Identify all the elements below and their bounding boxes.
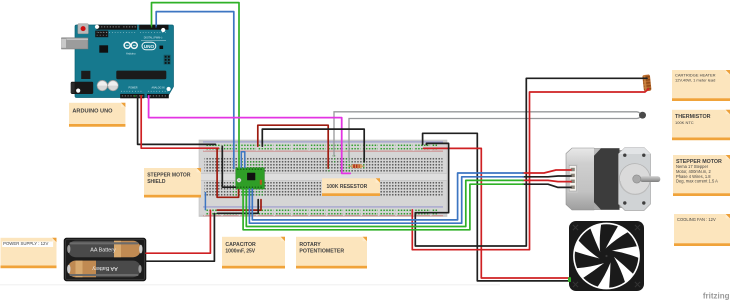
svg-text:ROTARY: ROTARY: [299, 242, 321, 248]
cooling fan FAN1: [569, 221, 644, 291]
wire red jumper top rail to driver VDD: [217, 149, 239, 198]
wire black fan negative from top rail: [423, 133, 570, 281]
battery pack BT1 (2x AA): [64, 238, 146, 281]
svg-text:POWER SUPPLY : 12V: POWER SUPPLY : 12V: [3, 241, 48, 246]
svg-text:CAPACITOR: CAPACITOR: [225, 242, 256, 248]
cartridge heater HTR1: [642, 74, 651, 91]
label note: STEPPER MOTOR SHIELD: [144, 168, 201, 198]
wire black jumper bottom rail to driver GND2: [217, 200, 258, 214]
wire red heater lead from bottom rail: [412, 89, 648, 250]
wire black Arduino GND to breadboard top rail: [138, 96, 216, 144]
svg-text:ANALOG IN: ANALOG IN: [151, 87, 164, 90]
wire red Arduino 5V to breadboard top rail: [141, 96, 218, 148]
wire black stepper motor lead 4: [523, 184, 571, 187]
wire red stepper motor lead 1: [523, 170, 571, 173]
label note: COOLING FAN 12V: [674, 214, 730, 246]
label note: ARDUINO UNO: [69, 103, 125, 127]
wire blue jumper row to bottom rail: [204, 193, 206, 210]
label note: 100K RESESTOR: [322, 178, 380, 196]
svg-text:Arduino: Arduino: [126, 51, 136, 55]
wire red stepper motor lead 3: [523, 180, 571, 181]
svg-text:Deg, max current 1.5 A: Deg, max current 1.5 A: [676, 179, 718, 184]
stepper driver board U2 (on breadboard): [236, 168, 265, 189]
label note: STEPPER MOTOR: [673, 155, 730, 196]
svg-text:100K RESESTOR: 100K RESESTOR: [327, 184, 368, 190]
wire blue stepper phase A1: [252, 173, 523, 220]
wire red jumper bottom rail to driver VMOT: [217, 200, 261, 211]
svg-text:100K NTC: 100K NTC: [675, 120, 694, 125]
wire blue jumper driver RST-SLP: [241, 152, 245, 168]
resistor R1 100K: [349, 164, 365, 168]
wire black jumper top rail to driver GND: [222, 146, 235, 187]
svg-text:STEPPER MOTOR: STEPPER MOTOR: [147, 173, 191, 179]
svg-text:POWER: POWER: [128, 87, 137, 90]
wire red fan positive from top rail: [424, 148, 570, 278]
stepper motor M1 (NEMA 17): [566, 148, 660, 211]
svg-text:UNO: UNO: [144, 44, 155, 49]
svg-text:1000mF, 25V: 1000mF, 25V: [225, 249, 255, 255]
wire magenta Arduino A-pin to breadboard: [149, 96, 351, 173]
fan wire connector stub: [568, 277, 571, 282]
svg-text:ARDUINO UNO: ARDUINO UNO: [72, 108, 113, 114]
svg-text:SHIELD: SHIELD: [147, 179, 166, 185]
faint separator line: [0, 283, 500, 286]
Arduino Uno U1: [62, 24, 174, 99]
label note: CARTRIDGE HEATER: [672, 70, 730, 101]
svg-text:AA Battery: AA Battery: [90, 247, 116, 253]
label note: CAPACITOR 1000mF 25V: [222, 237, 285, 269]
thermistor TH1: [334, 112, 646, 163]
label note: POWER SUPPLY 12V: [1, 238, 57, 268]
wire green stepper phase B2: [243, 184, 523, 230]
breadboard: [199, 140, 447, 217]
svg-text:COOLING FAN : 12V: COOLING FAN : 12V: [677, 217, 716, 222]
wire green Arduino D-pin to driver STEP: [152, 3, 240, 169]
wire blue stepper phase A2: [249, 177, 523, 223]
svg-text:DIGITAL (PWM~): DIGITAL (PWM~): [144, 36, 163, 39]
svg-text:AA Battery: AA Battery: [92, 265, 118, 271]
svg-text:12V,40W, 1 meter lead: 12V,40W, 1 meter lead: [675, 78, 715, 83]
wire dark red jumper top rail to resistor row: [258, 125, 328, 168]
wire green stepper phase B1: [246, 180, 523, 226]
wire black stepper motor lead 2: [523, 175, 571, 178]
wire blue Arduino D-pin to driver DIR: [156, 12, 234, 169]
wire black heater lead from top rail: [415, 78, 647, 246]
wire black jumper top rail to resistor row: [262, 129, 364, 162]
label note: THERMISTOR: [672, 110, 730, 140]
wire red battery positive to bottom rail: [146, 210, 210, 253]
svg-text:POTENTIOMETER: POTENTIOMETER: [299, 249, 344, 255]
label note: ROTARY POTENTIOMETER: [296, 237, 367, 269]
wire black battery negative to bottom rail: [146, 214, 214, 262]
junction node stepper leads: [522, 172, 524, 174]
svg-text:fritzing: fritzing: [703, 292, 730, 301]
